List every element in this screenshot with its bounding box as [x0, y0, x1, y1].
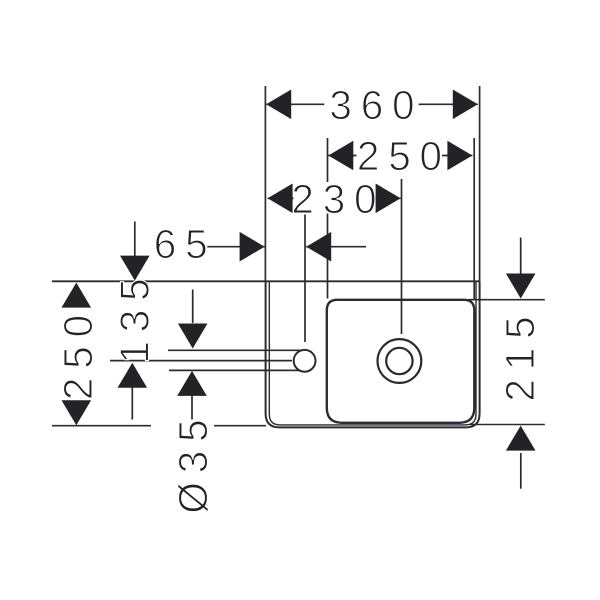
svg-text:135: 135 — [112, 270, 158, 364]
svg-text:215: 215 — [497, 308, 543, 402]
svg-text:250: 250 — [55, 306, 101, 400]
svg-text:250: 250 — [357, 133, 451, 179]
svg-text:65: 65 — [154, 221, 217, 267]
svg-text:360: 360 — [329, 82, 423, 128]
svg-text:230: 230 — [291, 176, 385, 222]
svg-text:Ø35: Ø35 — [170, 411, 216, 514]
